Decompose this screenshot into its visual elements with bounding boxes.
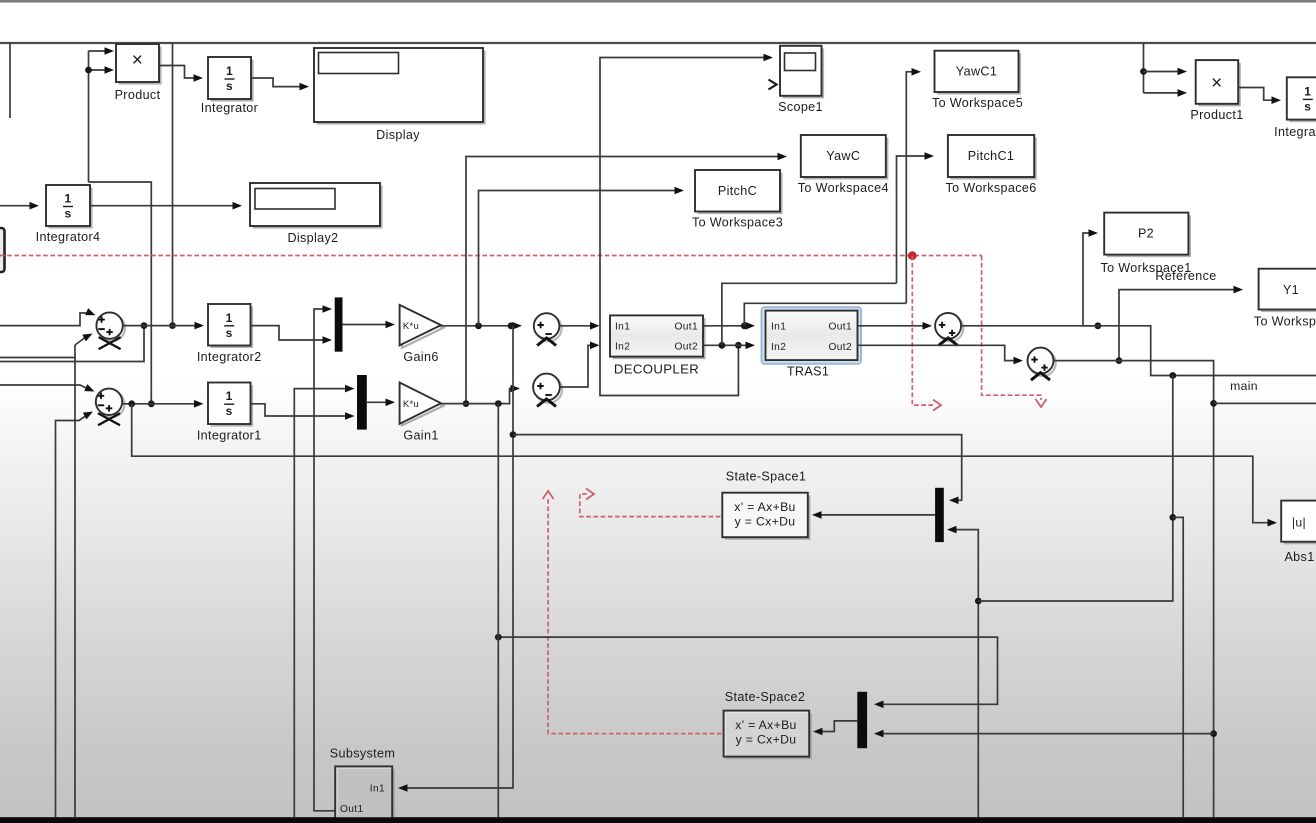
svg-text:State-Space1: State-Space1 <box>726 470 807 484</box>
wire branch x=466 up to YawC <box>466 157 781 404</box>
svg-text:State-Space2: State-Space2 <box>725 690 806 704</box>
wire branch x=478.5 up to PitchC <box>479 191 679 326</box>
svg-text:Product: Product <box>115 88 161 102</box>
svg-text:YawC: YawC <box>826 149 860 163</box>
sum block sum6 <box>1030 350 1056 376</box>
svg-text:YawC1: YawC1 <box>956 65 997 79</box>
wire x=498 vertical <box>497 404 499 817</box>
sum block sum3 <box>536 316 562 342</box>
svg-text:In1: In1 <box>615 322 630 333</box>
block Integrator1 <box>211 385 254 427</box>
svg-text:1: 1 <box>64 192 71 206</box>
wire branch x=1183 down <box>1173 517 1183 817</box>
block DECOUPLER <box>613 318 706 359</box>
wire vertical into Product1 <box>1143 43 1145 93</box>
svg-text:In1: In1 <box>370 784 385 795</box>
wire sum5 output right and down to main line <box>961 326 1316 376</box>
mux MuxSS1 <box>935 488 944 542</box>
svg-text:Out1: Out1 <box>340 804 364 815</box>
svg-text:Y1: Y1 <box>1283 283 1299 297</box>
svg-text:x' = Ax+Bu: x' = Ax+Bu <box>735 718 796 732</box>
svg-text:Scope1: Scope1 <box>778 100 823 114</box>
svg-text:K*u: K*u <box>403 321 419 332</box>
wire sum1 input B from below <box>74 345 76 817</box>
svg-text:Out2: Out2 <box>829 342 853 353</box>
svg-text:s: s <box>64 207 71 221</box>
svg-text:y = Cx+Du: y = Cx+Du <box>736 733 797 747</box>
gain Gain6 <box>402 308 443 348</box>
wire feedback In2-tap up and right y=283.3 <box>722 283 897 345</box>
svg-text:Reference: Reference <box>1155 269 1216 283</box>
svg-text:PitchC1: PitchC1 <box>968 149 1015 163</box>
svg-text:Display2: Display2 <box>287 231 338 245</box>
block Integrator4 <box>49 188 93 229</box>
svg-text:DECOUPLER: DECOUPLER <box>614 362 699 377</box>
svg-text:y = Cx+Du: y = Cx+Du <box>735 515 796 529</box>
wire mux1 upper input from Subsystem loop <box>314 309 335 811</box>
red dashed annotation line y=255.5 <box>0 255 982 257</box>
svg-text:s: s <box>226 326 233 340</box>
block State-Space1 <box>725 495 811 540</box>
sum block sum2 <box>98 391 124 417</box>
svg-text:1: 1 <box>226 64 233 78</box>
block Integrator <box>211 60 254 102</box>
block TRAS1 <box>766 311 858 361</box>
sum block sum5 <box>937 315 963 341</box>
wire y=182 to x=151 down to sum2 output <box>89 182 152 404</box>
svg-text:s: s <box>226 79 233 93</box>
red dashed path x=982 with down arrow <box>982 256 1041 400</box>
wire TRAS1 Out1 to sum5 <box>857 325 926 327</box>
wire into Integrator4 <box>0 205 33 207</box>
wire x=906.3 up to YawC1 <box>906 72 915 303</box>
block Subsystem <box>338 769 395 823</box>
wire mux-ss2 output jog to State-Space2 <box>818 721 857 732</box>
wire mux2 upper input from below <box>294 389 348 817</box>
wire mux2 to Gain1 <box>367 401 389 403</box>
red junction dot <box>908 251 917 260</box>
block Integrator5 <box>1289 80 1316 122</box>
wire Gain6 to sum3 with junctions <box>441 325 516 327</box>
wire branch y=403.4 to right edge <box>1214 402 1316 404</box>
wire DECOUPLER Out2 to TRAS1 In2 <box>703 344 749 346</box>
svg-text:1: 1 <box>1304 84 1311 98</box>
wire sum2 input B <box>56 415 88 817</box>
wire mux1 to Gain6 <box>343 324 390 326</box>
wire y=456 long to Abs1 <box>132 404 1271 523</box>
wire long vertical x=513 down to Subsystem In1 <box>401 326 513 788</box>
block YawC <box>803 138 888 180</box>
svg-text:Gain6: Gain6 <box>403 350 438 364</box>
wire DECOUPLER Out1 to TRAS1 In1 <box>703 325 749 327</box>
wire y=361.5 feedback to sum1 output <box>0 326 144 362</box>
wire long vertical x=172.5 <box>172 43 174 326</box>
svg-text:In1: In1 <box>771 322 786 333</box>
block YawC1 <box>937 53 1021 94</box>
block Abs1 <box>1284 503 1316 544</box>
svg-text:Integrator4: Integrator4 <box>36 230 101 244</box>
block Display <box>317 51 486 125</box>
wire top bus line y=43 <box>0 42 1316 44</box>
wire sum6 output right down the far column <box>1054 361 1214 817</box>
wire Integrator2 to mux lower input <box>251 326 327 340</box>
wire to Scope1 and down to TRAS In2 tap <box>600 58 767 396</box>
wire Product to Integrator <box>159 66 197 79</box>
svg-text:TRAS1: TRAS1 <box>787 365 829 379</box>
wire Integrator to Display <box>251 78 303 87</box>
svg-text:To Worksp: To Worksp <box>1254 315 1316 329</box>
wire Y1 tap <box>1119 290 1237 361</box>
sum block sum1 <box>99 315 125 341</box>
wire sum2 input A <box>0 385 88 389</box>
wire mux-ss2 lower input y=733.6 <box>877 733 1214 735</box>
svg-text:Subsystem: Subsystem <box>330 747 395 761</box>
wire feedback In1-tap up and right y=303.3 <box>744 303 906 326</box>
svg-text:1: 1 <box>226 311 233 325</box>
block left edge stub <box>0 228 5 272</box>
sum block sum4 <box>535 376 562 403</box>
svg-text:To Workspace5: To Workspace5 <box>932 96 1023 110</box>
svg-text:Gain1: Gain1 <box>403 429 438 443</box>
wire y=434.6 to State-Space1 mux top <box>513 435 962 501</box>
wire Integrator4 to Display2 <box>90 205 236 207</box>
wire TRAS1 Out2 to sum6 <box>857 345 1017 360</box>
wire Product1 input 2 <box>1144 92 1182 94</box>
block TRAS1 selected highlight <box>762 307 862 364</box>
block Product <box>119 47 162 85</box>
wire sum1 output to Integrator2 <box>123 325 198 327</box>
wire P2 tap from sum5 line <box>1083 233 1098 326</box>
svg-text:main: main <box>1230 379 1258 393</box>
wire sum1 input A <box>0 313 88 326</box>
svg-text:Display: Display <box>376 128 420 142</box>
wire stub x=10 <box>9 43 11 118</box>
wire sum4 to DECOUPLER In2 <box>560 345 593 387</box>
mux Mux2 <box>357 375 367 430</box>
bottom letterbox bar <box>0 817 1316 823</box>
block Display2 <box>253 186 383 229</box>
svg-text:Integrator1: Integrator1 <box>197 429 262 443</box>
svg-text:P2: P2 <box>1138 227 1154 241</box>
wire Product1 to Integrator5 <box>1238 88 1275 101</box>
wire sum2 output to Integrator1 <box>123 403 198 405</box>
wire vertical x=88.5 with junction <box>88 51 90 182</box>
svg-text:In2: In2 <box>615 342 630 353</box>
block P2 <box>1107 215 1191 257</box>
svg-text:x' = Ax+Bu: x' = Ax+Bu <box>734 500 795 514</box>
svg-text:K*u: K*u <box>403 399 419 410</box>
svg-text:×: × <box>132 50 143 71</box>
wire y=637 to ss2 mux top <box>498 637 997 704</box>
block PitchC1 <box>951 138 1037 180</box>
svg-text:s: s <box>226 404 233 418</box>
svg-text:1: 1 <box>226 389 233 403</box>
wire into Product input 1 <box>89 50 109 52</box>
mux MuxSS2 <box>857 692 867 748</box>
svg-text:To Workspace6: To Workspace6 <box>945 181 1036 195</box>
block Scope1 <box>783 48 825 98</box>
red dashed path down from dot with right arrow <box>912 256 934 405</box>
wire x=896.5 up to PitchC1 <box>897 156 929 283</box>
block Integrator2 <box>211 307 254 349</box>
block State-Space2 <box>726 713 812 759</box>
wire mux-ss1 output to State-Space1 <box>817 514 935 516</box>
svg-text:Out1: Out1 <box>829 322 853 333</box>
gain Gain1 <box>402 385 443 425</box>
svg-text:s: s <box>1304 99 1311 113</box>
wire Gain1 to sum4 jog <box>441 389 514 404</box>
block PitchC <box>698 173 783 215</box>
svg-text:Product1: Product1 <box>1190 108 1243 122</box>
svg-text:Integrator: Integrator <box>201 101 258 115</box>
block Y1 <box>1261 271 1316 312</box>
svg-text:Integra: Integra <box>1274 125 1316 139</box>
svg-text:Out1: Out1 <box>675 322 699 333</box>
block Product1 <box>1198 63 1241 107</box>
red dashed State-Space2 long path up <box>548 497 721 734</box>
red dashed State-Space1 output hook <box>580 494 721 517</box>
mux Mux1 <box>335 297 343 351</box>
wire Integrator1 to mux2 lower input <box>251 404 349 416</box>
svg-text:To Workspace4: To Workspace4 <box>798 181 889 195</box>
wire sum3 to DECOUPLER In1 <box>559 325 593 327</box>
wire y=357.5 from left <box>0 357 75 359</box>
svg-text:Out2: Out2 <box>675 342 699 353</box>
svg-text:PitchC: PitchC <box>718 184 757 198</box>
svg-text:|u|: |u| <box>1292 516 1306 530</box>
svg-text:To Workspace3: To Workspace3 <box>692 216 783 230</box>
svg-text:Abs1: Abs1 <box>1284 550 1314 564</box>
svg-text:In2: In2 <box>771 342 786 353</box>
svg-text:Integrator2: Integrator2 <box>197 350 262 364</box>
wire into Product input 2 <box>89 69 109 71</box>
svg-text:×: × <box>1211 73 1222 94</box>
wire mux-ss1 lower input vertical x=978 <box>950 530 978 817</box>
wire Product1 input 1 <box>1144 71 1182 73</box>
wire y=601 from x=1172.8 <box>978 376 1173 602</box>
